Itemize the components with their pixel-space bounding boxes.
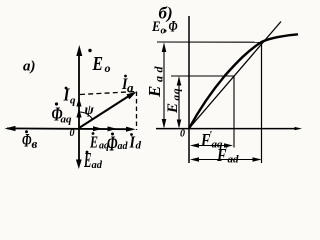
dimension E_ad (vertical double arrow at x=164)	[162, 43, 167, 129]
svg-text:0: 0	[180, 129, 185, 140]
label Phi_aq	[52, 102, 73, 125]
label Phi_v	[22, 130, 38, 151]
label Iq	[63, 85, 76, 107]
svg-text:ad: ad	[118, 141, 129, 152]
label E_ad	[83, 148, 102, 172]
svg-text:0: 0	[70, 128, 75, 139]
svg-text:в: в	[32, 136, 38, 151]
vector E0 arrowhead (up)	[76, 45, 82, 56]
label F'ad	[216, 145, 239, 166]
magnetization curve	[189, 34, 298, 128]
label E_aq (rotated)	[165, 88, 183, 115]
svg-text:E: E	[165, 103, 181, 114]
vertical axis (right diagram)	[188, 16, 190, 163]
vector Phi_ad arrowhead (right, on d axis)	[108, 126, 118, 131]
svg-text:E: E	[92, 53, 103, 75]
dimension E_aq (vertical double arrow at x=179)	[177, 76, 182, 128]
vector Phi_v arrowhead (left)	[5, 126, 16, 131]
vector I_a (diagonal)	[79, 92, 137, 128]
label a)	[23, 59, 36, 75]
angle arc psi	[79, 112, 92, 119]
svg-text:ad: ad	[152, 63, 166, 82]
vertical projection at F'ad / crossing (x=261.5)	[261, 42, 263, 163]
horizontal axis d (left arrow to Id arrow)	[7, 127, 133, 130]
label I_d	[129, 133, 142, 152]
label I_a	[121, 75, 134, 95]
svg-text:E: E	[89, 133, 98, 152]
label Phi_ad	[107, 132, 129, 156]
dashed projection line (vertical, from Ia tip down to d axis)	[136, 92, 138, 131]
projection line at Eaq level (y=76)	[171, 75, 234, 77]
svg-text:aq: aq	[171, 88, 183, 101]
svg-text:Φ: Φ	[22, 131, 32, 152]
svg-text:d: d	[136, 140, 142, 152]
origin label 0 (right diagram)	[180, 129, 185, 140]
svg-text:а): а)	[23, 59, 36, 75]
label F'aq	[200, 130, 223, 151]
label E0	[88, 49, 110, 75]
label E_ad (rotated)	[145, 63, 166, 98]
vector I_d arrowhead (right end of d axis)	[126, 127, 136, 132]
svg-text:q: q	[70, 95, 76, 107]
svg-text:aq: aq	[61, 114, 73, 126]
svg-text:Φ: Φ	[169, 19, 178, 36]
vector Phi_aq arrowhead on axis	[76, 109, 81, 118]
svg-text:o: o	[105, 61, 111, 75]
svg-text:ψ: ψ	[85, 103, 95, 118]
label b)	[159, 4, 173, 23]
vertical axis q (from Ead down-arrow to Eo up-arrow)	[78, 49, 80, 165]
svg-text:E: E	[151, 19, 160, 35]
dimension F'aq (horizontal double arrow at y=145.5)	[190, 143, 233, 147]
axis label E0, Phi	[151, 19, 177, 37]
origin label 0 (left diagram)	[70, 128, 75, 139]
label psi	[85, 103, 95, 118]
vector E_aq arrowhead (right, on d axis)	[93, 126, 103, 131]
label E_aq	[89, 132, 109, 151]
svg-text:a: a	[127, 80, 134, 95]
vector Iq arrowhead on axis	[76, 98, 81, 107]
svg-text:E: E	[145, 86, 164, 98]
straight air-gap line	[189, 22, 281, 129]
vector E_ad arrowhead (down)	[76, 160, 82, 170]
vertical projection at F'aq (x=234)	[233, 76, 235, 148]
svg-text:,: ,	[164, 20, 168, 34]
horizontal axis (right diagram, with baseline extension to the left)	[156, 127, 302, 130]
svg-text:ad: ad	[92, 160, 103, 171]
projection line at E0 level (y=42)	[157, 41, 262, 43]
dimension F'ad (horizontal double arrow at y=159.5)	[190, 157, 262, 161]
dashed projection line (horizontal, Ia tip level)	[80, 92, 137, 95]
svg-text:ad: ad	[228, 154, 240, 166]
